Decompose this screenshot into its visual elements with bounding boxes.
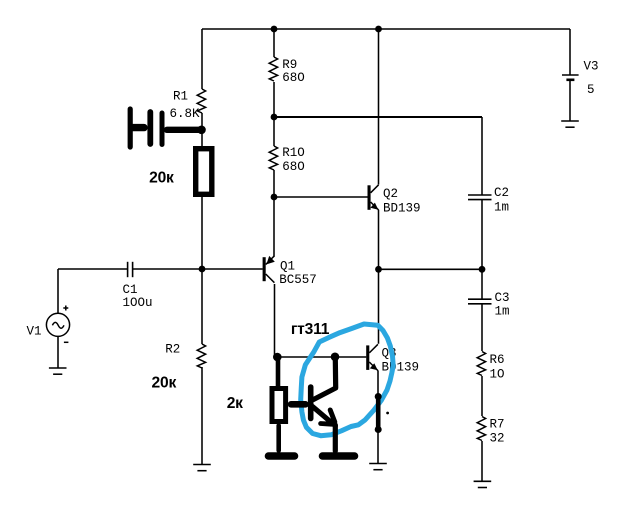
svg-text:R9: R9 <box>282 58 297 72</box>
svg-text:BC557: BC557 <box>279 273 317 287</box>
svg-text:C1: C1 <box>123 283 138 297</box>
svg-text:Q2: Q2 <box>383 187 398 201</box>
svg-text:BD139: BD139 <box>382 361 420 375</box>
svg-text:1m: 1m <box>495 305 510 319</box>
svg-text:32: 32 <box>490 432 505 446</box>
svg-text:1OOu: 1OOu <box>123 296 153 310</box>
svg-text:C3: C3 <box>495 291 510 305</box>
svg-text:6.8K: 6.8K <box>170 107 201 121</box>
svg-text:5: 5 <box>587 83 595 97</box>
svg-text:V1: V1 <box>27 325 42 339</box>
svg-text:R6: R6 <box>490 353 505 367</box>
svg-text:1m: 1m <box>494 201 509 215</box>
svg-text:20к: 20к <box>152 375 177 392</box>
svg-text:68O: 68O <box>282 71 305 85</box>
svg-text:Q1: Q1 <box>280 259 295 273</box>
svg-text:R1O: R1O <box>282 146 305 160</box>
svg-text:BD139: BD139 <box>383 202 421 216</box>
svg-text:20к: 20к <box>149 170 174 187</box>
svg-text:R2: R2 <box>165 343 180 357</box>
svg-text:2к: 2к <box>227 395 243 412</box>
svg-text:гт311: гт311 <box>291 321 330 338</box>
svg-text:68O: 68O <box>282 160 305 174</box>
svg-text:R7: R7 <box>490 418 505 432</box>
svg-text:1O: 1O <box>490 368 505 382</box>
svg-text:V3: V3 <box>584 60 599 74</box>
svg-text:R1: R1 <box>173 90 188 104</box>
svg-text:C2: C2 <box>494 186 509 200</box>
